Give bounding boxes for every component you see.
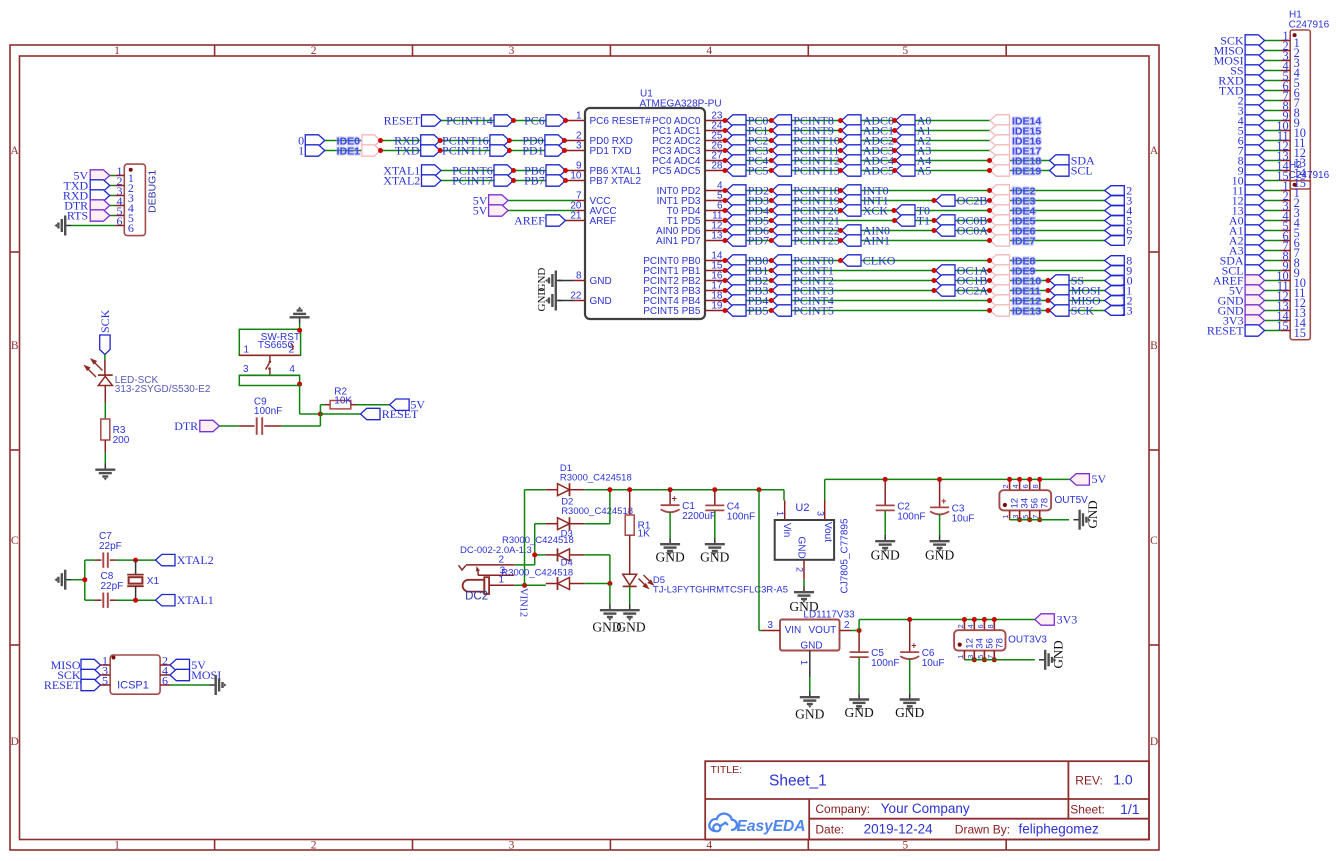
barrel jack DC2	[463, 580, 485, 592]
net flag PCINT7	[494, 175, 514, 186]
svg-text:5V: 5V	[1092, 472, 1107, 486]
ICSP1 pin 6 ground	[160, 684, 170, 686]
svg-text:2019-12-24: 2019-12-24	[864, 822, 934, 837]
LD1117 pin1 ground	[809, 651, 811, 678]
3V3 rail	[858, 620, 860, 631]
svg-text:22: 22	[570, 291, 582, 302]
svg-text:5: 5	[902, 840, 908, 852]
wire net IDE1 to U1 pin 3	[325, 150, 565, 152]
wire U1 pin 15 net IDE9	[705, 270, 725, 272]
svg-text:ATMEGA328P-PU: ATMEGA328P-PU	[640, 99, 722, 110]
LED LED-SCK	[98, 374, 113, 376]
svg-text:Sheet:: Sheet:	[1070, 803, 1105, 817]
svg-text:1.0: 1.0	[1113, 772, 1133, 788]
net flag RXD	[421, 135, 441, 146]
header OUT3V3	[963, 620, 965, 631]
connector H2 C247916	[1290, 181, 1310, 340]
wire DTR to C9	[219, 425, 238, 427]
wire U1 pin 23 net IDE14	[705, 120, 725, 122]
svg-text:5: 5	[1021, 515, 1030, 519]
net flag IDE3 (highlight)	[990, 195, 1010, 206]
switch SW-RST TS665C	[239, 329, 300, 355]
svg-text:AIN1 PD7: AIN1 PD7	[656, 236, 701, 247]
ground under C1	[660, 538, 680, 555]
svg-text:1/1: 1/1	[1120, 801, 1140, 817]
svg-text:22pF: 22pF	[99, 541, 122, 552]
net flag PCINT23	[772, 235, 792, 246]
edge port 8	[1105, 256, 1125, 266]
svg-text:GND: GND	[536, 288, 548, 312]
wire 5V to U1 VCC/AVCC	[508, 210, 575, 212]
ground under C3	[930, 535, 950, 552]
svg-text:3V3: 3V3	[1057, 612, 1078, 626]
wire U1 pin 13 net IDE7	[705, 240, 725, 242]
net flag PCINT20	[772, 205, 792, 216]
OUT3V3 ground wire	[964, 659, 1034, 661]
power flag 5V	[489, 205, 509, 216]
net flag PC6	[546, 115, 566, 126]
svg-text:PCINT5: PCINT5	[793, 303, 834, 317]
net flag PB7	[546, 175, 566, 186]
svg-text:GND: GND	[795, 537, 806, 559]
net flag A4	[896, 155, 916, 166]
header flag RXD pin 5	[1265, 80, 1281, 82]
svg-text:RTS: RTS	[67, 209, 88, 223]
svg-text:4: 4	[966, 624, 975, 628]
junction dots	[723, 138, 728, 143]
net flag PCINT21	[772, 215, 792, 226]
net flag PD1	[545, 145, 565, 156]
wire ground to SW-RST	[299, 324, 301, 331]
net flag IDE4 (highlight)	[990, 205, 1010, 216]
regulator U2 CJ7805_C77895	[784, 500, 786, 520]
net flag PC5	[727, 165, 747, 176]
svg-text:5: 5	[102, 673, 108, 687]
net flag PC2	[727, 135, 747, 146]
svg-text:2: 2	[499, 554, 505, 565]
edge port 5	[1105, 216, 1125, 226]
svg-text:A: A	[11, 145, 20, 157]
net flag IDE8 (highlight)	[990, 255, 1010, 266]
svg-text:2: 2	[844, 620, 850, 631]
svg-text:Your Company: Your Company	[881, 801, 970, 816]
header flag 4 pin 9	[1265, 120, 1281, 122]
svg-text:4: 4	[1011, 484, 1020, 488]
edge port 7	[1105, 236, 1125, 246]
svg-text:C: C	[1150, 535, 1158, 547]
junction dots	[723, 118, 728, 123]
net flag RESET	[422, 115, 442, 126]
svg-text:Drawn By:: Drawn By:	[955, 822, 1010, 836]
svg-text:XTAL2: XTAL2	[177, 553, 214, 567]
wire DC2 pin1 up to D1	[524, 490, 526, 586]
svg-text:2: 2	[311, 840, 317, 852]
svg-text:PCINT14: PCINT14	[446, 113, 493, 127]
capacitor C2 100nF	[884, 479, 886, 505]
svg-text:GND: GND	[655, 550, 684, 565]
svg-text:Date:: Date:	[815, 822, 844, 836]
svg-text:6: 6	[976, 624, 985, 628]
svg-text:SCK: SCK	[1071, 303, 1095, 317]
svg-text:78: 78	[994, 638, 1005, 649]
wire U1 pin 11 net IDE5	[705, 220, 725, 222]
capacitor C1 2200uF	[669, 490, 671, 506]
svg-text:Company:: Company:	[815, 802, 870, 816]
svg-text:OC2B: OC2B	[957, 193, 988, 207]
net flag CLKO	[842, 255, 862, 266]
svg-text:10uF: 10uF	[922, 658, 945, 669]
edge port 2	[1105, 186, 1125, 196]
svg-text:OUT3V3: OUT3V3	[1008, 635, 1047, 646]
header flag A3 pin 7	[1265, 250, 1281, 252]
header flag SCK pin 1	[1265, 40, 1281, 42]
crystal X1	[135, 560, 137, 574]
net flag IDE14 (highlight)	[990, 115, 1010, 126]
svg-text:IDE7: IDE7	[1012, 235, 1036, 247]
svg-text:Vin: Vin	[781, 523, 792, 537]
svg-text:PCINT7: PCINT7	[452, 173, 493, 187]
svg-text:GND: GND	[590, 276, 612, 287]
net flag T1	[896, 215, 916, 226]
net flag T0	[896, 205, 916, 216]
diode D4 R3000_C424518	[546, 583, 558, 585]
svg-text:A: A	[1150, 145, 1159, 157]
svg-text:GND: GND	[895, 705, 924, 720]
net flag ADC0	[842, 115, 862, 126]
wire D1 to +rail	[584, 489, 610, 491]
svg-text:AIN1: AIN1	[863, 233, 890, 247]
net flag A1	[896, 125, 916, 136]
svg-text:1: 1	[1001, 515, 1010, 519]
U2 pin2 to ground	[803, 560, 805, 580]
net flag IDE15 (highlight)	[990, 125, 1010, 136]
svg-text:10: 10	[570, 171, 582, 182]
svg-text:2: 2	[1001, 484, 1010, 488]
svg-text:XCK: XCK	[863, 203, 889, 217]
svg-text:XTAL2: XTAL2	[383, 173, 420, 187]
OUT5V ground wire	[1010, 519, 1070, 521]
net flag ADC3	[842, 145, 862, 156]
svg-text:1K: 1K	[638, 529, 651, 540]
svg-text:D: D	[11, 736, 19, 748]
svg-text:6: 6	[128, 221, 134, 235]
svg-text:PC6: PC6	[524, 113, 545, 127]
wire U1 pin 4 net IDE2	[705, 190, 725, 192]
svg-text:+: +	[941, 496, 946, 506]
resistor R3	[101, 419, 110, 440]
net flag PCINT13	[772, 165, 792, 176]
svg-text:7: 7	[1031, 515, 1040, 519]
header flag 13 pin 3	[1265, 210, 1281, 212]
svg-text:feliphegomez: feliphegomez	[1019, 822, 1100, 837]
svg-text:1: 1	[114, 840, 120, 852]
svg-text:CJ7805_C77895: CJ7805_C77895	[840, 518, 851, 593]
svg-text:PCINT13: PCINT13	[793, 163, 840, 177]
header flag A2 pin 6	[1265, 240, 1281, 242]
svg-text:100nF: 100nF	[897, 511, 925, 522]
net flag PD6	[727, 225, 747, 236]
wire D5 to ground	[629, 586, 631, 604]
wire U1 pin 12 net IDE6	[705, 230, 725, 232]
svg-text:1: 1	[799, 660, 809, 665]
wire R2 to 5V flag	[356, 404, 390, 406]
DEBUG1 flag RTS pin 5	[110, 215, 116, 217]
wire net RESET to U1 pin 1	[441, 120, 566, 122]
svg-text:GND: GND	[700, 550, 729, 565]
svg-text:B: B	[11, 340, 19, 352]
header flag 11 pin 1	[1265, 190, 1281, 192]
svg-text:IDE13: IDE13	[1012, 305, 1041, 317]
net flag A3	[896, 145, 916, 156]
wire rail down to U2 Vin	[783, 490, 785, 501]
ground under C5	[849, 693, 869, 710]
wire D3/D4 column to ground	[609, 584, 611, 605]
ground under D3/D4	[600, 604, 620, 621]
net flag 1	[305, 145, 325, 156]
svg-text:GND: GND	[800, 640, 822, 651]
net flag MISO	[1050, 295, 1070, 306]
svg-text:100nF: 100nF	[254, 406, 282, 417]
svg-text:100nF: 100nF	[871, 658, 899, 669]
edge port 13	[1105, 306, 1125, 316]
net flag PB6	[546, 165, 566, 176]
net flag OC1A	[936, 265, 956, 276]
net flag PCINT9	[772, 125, 792, 136]
header flag 10 pin 15	[1265, 180, 1281, 182]
ICSP1 flag SCK pin 3	[81, 669, 101, 680]
svg-text:TXD: TXD	[395, 143, 420, 157]
net flag PB2	[727, 275, 747, 286]
net flag IDE13 (highlight)	[990, 305, 1010, 316]
svg-text:5V: 5V	[473, 203, 488, 217]
net flag AIN1	[842, 235, 862, 246]
header flag SDA pin 8	[1265, 260, 1281, 262]
edge port 6	[1105, 226, 1125, 236]
svg-text:Vout: Vout	[822, 522, 833, 542]
svg-text:PB7: PB7	[524, 173, 545, 187]
ground at U1 pin 8	[573, 280, 585, 282]
net flag SCK	[1050, 305, 1070, 316]
net flag A0	[896, 115, 916, 126]
svg-text:5: 5	[902, 45, 908, 57]
svg-text:200: 200	[113, 435, 130, 446]
header flag GND pin 13	[1265, 310, 1281, 312]
svg-text:2200uF: 2200uF	[682, 511, 716, 522]
ground under C4	[705, 538, 725, 555]
svg-text:C: C	[11, 535, 19, 547]
ground under C2	[875, 535, 895, 552]
ICSP1 flag MISO pin 1	[81, 659, 101, 670]
header flag A1 pin 5	[1265, 230, 1281, 232]
diode D1 R3000_C424518	[546, 489, 558, 491]
net flag PB0	[727, 255, 747, 266]
svg-text:R3000_C424518: R3000_C424518	[501, 568, 573, 579]
svg-text:IDE1: IDE1	[337, 145, 361, 157]
junction dots	[378, 148, 383, 153]
edge port 9	[1105, 266, 1125, 276]
svg-text:RESET: RESET	[382, 407, 419, 421]
net flag PD5	[727, 215, 747, 226]
net flag IDE6 (highlight)	[990, 225, 1010, 236]
net flag 5V at R2	[390, 399, 410, 410]
net flag AIN0	[842, 225, 862, 236]
svg-text:3: 3	[243, 364, 249, 375]
svg-text:1: 1	[576, 110, 582, 121]
svg-text:Sheet_1: Sheet_1	[769, 772, 827, 789]
net flag RESET	[361, 408, 381, 419]
svg-text:VIN: VIN	[785, 625, 802, 636]
svg-text:RESET: RESET	[44, 678, 81, 692]
svg-text:1: 1	[956, 655, 965, 659]
wire U1 pin 27 net IDE18	[705, 160, 725, 162]
header flag 3 pin 8	[1265, 110, 1281, 112]
svg-text:PD1: PD1	[522, 143, 543, 157]
net flag XTAL1	[422, 165, 442, 176]
net flag PCINT22	[772, 225, 792, 236]
svg-text:2: 2	[795, 567, 805, 572]
svg-text:3: 3	[966, 655, 975, 659]
net flag MOSI	[1050, 285, 1070, 296]
net flag PB1	[727, 265, 747, 276]
svg-text:+: +	[672, 494, 677, 504]
header flag MOSI pin 3	[1265, 60, 1281, 62]
power flag 3V3	[1035, 614, 1055, 625]
svg-text:C247916: C247916	[1289, 19, 1330, 30]
net flag IDE7 (highlight)	[990, 235, 1010, 246]
IC U1 ATMEGA328P-PU body	[585, 108, 705, 319]
svg-text:EasyEDA: EasyEDA	[737, 818, 806, 835]
net flag PB5	[727, 305, 747, 316]
wire 5V to U1 VCC/AVCC	[508, 200, 575, 202]
net flag PB4	[727, 295, 747, 306]
net flag SDA	[1050, 155, 1070, 166]
svg-text:15: 15	[1276, 319, 1288, 333]
wire U1 pin 26 net IDE17	[705, 150, 725, 152]
svg-text:19: 19	[711, 301, 723, 312]
net flag PCINT19	[772, 195, 792, 206]
DC2 pin 2 wire	[466, 564, 515, 566]
svg-text:OC0A: OC0A	[957, 223, 989, 237]
svg-text:6: 6	[162, 673, 168, 687]
svg-text:PC5: PC5	[748, 163, 769, 177]
net flag PC3	[727, 145, 747, 156]
svg-text:DC-002-2.0A-1.3: DC-002-2.0A-1.3	[460, 545, 532, 556]
svg-text:100nF: 100nF	[727, 511, 755, 522]
net flag IDE11 (highlight)	[990, 285, 1010, 296]
wire U1 pin 28 net IDE19	[705, 170, 725, 172]
net flag IDE5 (highlight)	[990, 215, 1010, 226]
header flag 7 pin 12	[1265, 150, 1281, 152]
connector ICSP1	[110, 655, 160, 694]
header flag 2 pin 7	[1265, 100, 1281, 102]
net flag PCINT8	[772, 115, 792, 126]
resistor R2	[325, 404, 330, 406]
svg-text:PCINT5 PB5: PCINT5 PB5	[643, 306, 701, 317]
svg-text:TITLE:: TITLE:	[711, 764, 743, 776]
capacitor C6 10uF	[909, 620, 911, 653]
svg-text:8: 8	[576, 271, 582, 282]
svg-text:PD7: PD7	[748, 233, 769, 247]
ground under D5	[620, 604, 640, 621]
svg-text:4: 4	[289, 364, 295, 375]
wire R3 to ground	[104, 440, 106, 452]
switch actuator	[269, 355, 271, 361]
svg-text:AREF: AREF	[514, 213, 545, 227]
net flag IDE18 (highlight)	[990, 155, 1010, 166]
wire U1 pin 16 net IDE10	[705, 280, 725, 282]
net flag IDE2 (highlight)	[990, 185, 1010, 196]
svg-text:313-2SYGD/S530-E2: 313-2SYGD/S530-E2	[115, 384, 211, 395]
svg-text:21: 21	[570, 211, 582, 222]
ground above SW-RST	[290, 307, 310, 324]
svg-text:PC5 ADC5: PC5 ADC5	[652, 166, 701, 177]
junction dots row pin1	[511, 118, 516, 123]
wire U1 pin 14 net IDE8	[705, 260, 725, 262]
capacitor C7	[102, 552, 104, 567]
net flag PCINT2	[772, 275, 792, 286]
DEBUG1 flag TXD pin 2	[110, 185, 116, 187]
svg-text:GND: GND	[616, 620, 645, 635]
junction dots	[723, 148, 728, 153]
EasyEDA logo	[709, 814, 737, 832]
net flag IDE19 (highlight)	[990, 165, 1010, 176]
svg-text:10uF: 10uF	[952, 513, 975, 524]
net flag OC2A	[936, 285, 956, 296]
svg-text:RESET: RESET	[384, 113, 421, 127]
diode D2 R3000_C424518	[535, 523, 546, 525]
net flag IDE0 (highlight)	[362, 135, 381, 146]
edge port 3	[1105, 196, 1125, 206]
power flag 5V	[489, 195, 509, 206]
connector DEBUG1	[124, 164, 145, 236]
svg-text:1: 1	[298, 143, 304, 157]
wire node to R2	[319, 405, 321, 414]
edge port 12	[1105, 296, 1125, 306]
header flag SS pin 4	[1265, 70, 1281, 72]
net flag PCINT10	[772, 135, 792, 146]
svg-text:D: D	[1150, 736, 1158, 748]
svg-text:3: 3	[1011, 515, 1020, 519]
svg-text:GND: GND	[1085, 500, 1100, 528]
ground at crystal	[54, 570, 71, 590]
svg-text:4: 4	[706, 45, 712, 57]
svg-text:3: 3	[576, 141, 582, 152]
ICSP1 flag MOSI pin 4	[160, 674, 170, 676]
wire net XTAL2 to U1	[441, 180, 566, 182]
svg-text:DEBUG1: DEBUG1	[147, 170, 159, 213]
header flag 5V pin 11	[1265, 290, 1281, 292]
junction dots	[723, 168, 728, 173]
svg-text:PD1 TXD: PD1 TXD	[590, 146, 632, 157]
svg-text:3: 3	[509, 45, 515, 57]
svg-text:78: 78	[1040, 498, 1051, 509]
capacitor C4 100nF	[714, 490, 716, 506]
net flag PCINT6	[494, 165, 514, 176]
capacitor C3 10uF	[939, 479, 941, 507]
wire D4 to ground column	[584, 583, 610, 585]
net flag IDE12 (highlight)	[990, 295, 1010, 306]
net flag SS	[1050, 275, 1070, 286]
header flag AREF pin 10	[1265, 280, 1281, 282]
svg-text:10K: 10K	[334, 395, 352, 406]
svg-text:T1: T1	[917, 213, 930, 227]
net flag TXD	[421, 145, 441, 156]
net flag PCINT3	[772, 285, 792, 296]
net flag PCINT4	[772, 295, 792, 306]
wire D3 to ground column	[584, 554, 610, 556]
wire node to RESET flag	[320, 413, 360, 415]
net flag PC0	[727, 115, 747, 126]
